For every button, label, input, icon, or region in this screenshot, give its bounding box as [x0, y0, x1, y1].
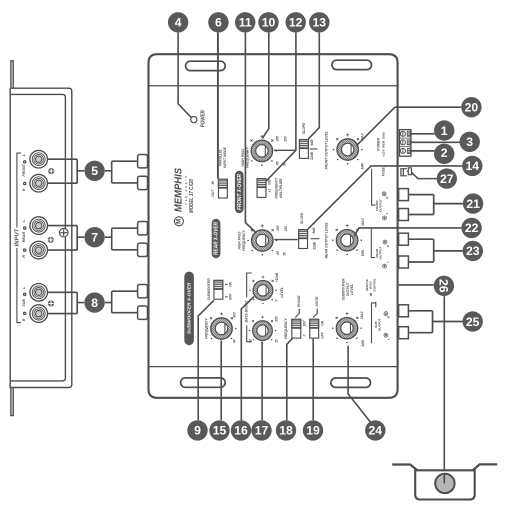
- wire sub L: [48, 291, 78, 293]
- input jack FRONT R: [30, 174, 48, 192]
- switch S4 frequency multiplier: [257, 179, 266, 198]
- svg-text:REAR X-OVER: REAR X-OVER: [214, 222, 220, 255]
- svg-text:FUSE: FUSE: [381, 166, 385, 176]
- svg-text:18: 18: [279, 424, 293, 438]
- top-left mounting slot: [186, 61, 226, 70]
- wire callout8 to plugs: [105, 291, 138, 313]
- K3 pointer line: [274, 239, 297, 241]
- callout 17: [251, 420, 271, 440]
- switch S7 subwoofer on/off: [214, 280, 223, 299]
- svg-text:. C A R . A U D I O .: . C A R . A U D I O .: [185, 172, 188, 207]
- subwoofer speaker box: [415, 470, 475, 499]
- slope divider (rear): [311, 238, 320, 240]
- switch S1 parallel input mode: [218, 179, 227, 198]
- svg-text:REAR: REAR: [22, 232, 26, 243]
- svg-text:13: 13: [313, 16, 327, 30]
- rear output L star: [383, 264, 387, 268]
- led dot sub L: [23, 292, 27, 296]
- svg-text:27: 27: [440, 172, 454, 186]
- mute label leader: [313, 309, 317, 318]
- knob K3 high pass frequency rear: [247, 224, 277, 255]
- svg-text:x50: x50: [268, 179, 272, 186]
- wire rear R: [48, 249, 78, 251]
- K1 pointer line: [274, 149, 296, 151]
- svg-text:24: 24: [369, 424, 383, 438]
- leader callout 18 from S5: [287, 338, 293, 420]
- callout 10: [258, 12, 278, 32]
- svg-text:+12dB: +12dB: [275, 272, 279, 282]
- rear output R star: [383, 240, 387, 244]
- svg-text:12dB: 12dB: [312, 241, 316, 249]
- svg-text:FREQUENCY: FREQUENCY: [242, 229, 246, 250]
- svg-text:12dB: 12dB: [310, 151, 314, 159]
- svg-text:OFF: OFF: [321, 331, 325, 338]
- svg-text:MAX: MAX: [361, 217, 365, 225]
- svg-text:6: 6: [215, 16, 222, 30]
- svg-text:FRONT OUTPUT LEVEL: FRONT OUTPUT LEVEL: [325, 131, 329, 169]
- speaker flange right: [473, 464, 498, 470]
- bottom-left mounting slot: [181, 378, 226, 387]
- wire bracket sub: [77, 292, 84, 313]
- svg-text:REAR OUTPUT LEVEL: REAR OUTPUT LEVEL: [325, 222, 329, 258]
- callout 27: [437, 168, 457, 188]
- leader callout 13 to S2: [308, 33, 319, 140]
- callout 14: [462, 156, 482, 176]
- svg-text:85: 85: [276, 161, 280, 165]
- svg-text:MIN: MIN: [361, 249, 365, 256]
- remote bass port bracket: [372, 302, 377, 343]
- svg-text:20: 20: [465, 101, 479, 115]
- svg-text:6dB: 6dB: [310, 139, 314, 146]
- RCA plug front R: [138, 176, 148, 189]
- svg-text:INPUT: INPUT: [15, 228, 21, 247]
- led dot sub R: [23, 312, 27, 316]
- power LED: [191, 117, 197, 123]
- callout 11: [235, 12, 255, 32]
- knob K6 bass boost level: [249, 276, 277, 305]
- leader callout 19 from S6: [312, 339, 314, 421]
- svg-text:4: 4: [175, 16, 182, 30]
- svg-text:50: 50: [283, 252, 287, 256]
- svg-text:⇄: ⇄: [368, 293, 373, 296]
- svg-text:7: 7: [91, 231, 98, 245]
- svg-text:5: 5: [91, 164, 98, 178]
- terminal clamp +12V: [407, 131, 410, 136]
- callout 9: [187, 420, 207, 440]
- svg-text:SUBWOOFER X-OVER: SUBWOOFER X-OVER: [186, 282, 192, 334]
- svg-text:OUTPUT: OUTPUT: [379, 198, 383, 212]
- svg-text:FREQUENCY: FREQUENCY: [284, 318, 288, 339]
- speaker cone: [435, 474, 454, 493]
- front output jack L: [399, 209, 409, 221]
- callout 25: [463, 311, 483, 331]
- speaker cone wire: [443, 474, 445, 484]
- top-right mounting slot: [332, 60, 372, 69]
- wire callout5 to plugs: [105, 161, 138, 183]
- pill REAR X-OVER: [212, 219, 221, 258]
- input group bracket: [17, 153, 21, 323]
- svg-text:15: 15: [213, 424, 227, 438]
- led dot front R: [23, 182, 27, 186]
- svg-text:REMOTE: REMOTE: [365, 279, 369, 291]
- RCA plug front L: [138, 155, 148, 168]
- bass boost bracket: [247, 273, 252, 342]
- wire rear L: [48, 225, 78, 227]
- callout 20: [461, 97, 481, 117]
- terminal screw +12V: [400, 131, 405, 136]
- svg-text:22: 22: [465, 221, 479, 235]
- slope divider (front): [310, 148, 318, 150]
- switch S6 mute: [310, 319, 319, 338]
- svg-text:MULTIPLIER: MULTIPLIER: [279, 178, 283, 198]
- svg-text:OUT: OUT: [211, 189, 215, 197]
- knob K4 rear output level: [332, 224, 362, 255]
- leader callout 24 from K8: [348, 346, 375, 429]
- leader callout 26 to speaker: [443, 296, 445, 483]
- front output L star: [383, 216, 387, 220]
- svg-text:MEMPHIS: MEMPHIS: [173, 168, 184, 212]
- Memphis logo M symbol: [174, 217, 183, 226]
- svg-text:OUTPUT: OUTPUT: [378, 317, 382, 331]
- svg-text:R: R: [22, 318, 26, 321]
- svg-text:3: 3: [466, 135, 473, 149]
- front output wires to callout 21: [408, 195, 463, 215]
- svg-text:CONTROL: CONTROL: [372, 278, 376, 292]
- panel bottom flange: [11, 388, 13, 415]
- svg-text:L: L: [22, 286, 26, 288]
- terminal clamp GND: [407, 148, 410, 153]
- svg-text:SLOPE: SLOPE: [302, 122, 306, 134]
- knob K5 subwoofer frequency: [207, 312, 237, 343]
- bottom fold line: [149, 366, 398, 368]
- svg-text:2: 2: [441, 146, 448, 160]
- power terminal block: [400, 130, 412, 157]
- svg-text:PHASE: PHASE: [297, 295, 301, 307]
- svg-text:10: 10: [262, 16, 276, 30]
- rear output bracket: [371, 229, 375, 258]
- input jack SUB L: [30, 284, 48, 302]
- sub output R star: [384, 312, 388, 316]
- wire front R: [48, 182, 78, 184]
- terminal clamp REM: [407, 140, 410, 145]
- phase label leader: [295, 309, 299, 318]
- switch S5 phase: [292, 319, 301, 338]
- callout 19: [303, 420, 323, 440]
- sub output wires to callout 25: [408, 311, 462, 333]
- svg-text:8: 8: [91, 296, 98, 310]
- svg-text:BASS: BASS: [369, 281, 373, 289]
- led dot rear R: [23, 248, 27, 252]
- svg-text:17: 17: [255, 424, 269, 438]
- svg-text:FREQUENCY: FREQUENCY: [275, 177, 279, 198]
- svg-text:14: 14: [466, 159, 480, 173]
- callout 22: [461, 218, 481, 238]
- label ON (sub switch): [225, 281, 232, 287]
- wire bracket rear: [77, 226, 84, 251]
- callout 6: [208, 12, 228, 32]
- panel mount screw: [59, 228, 68, 237]
- leader callout 4 to power LED: [178, 33, 191, 118]
- terminal screw GND: [400, 148, 405, 153]
- svg-text:85: 85: [276, 251, 280, 255]
- knob K2 front output level: [333, 133, 363, 164]
- svg-text:40: 40: [232, 339, 236, 344]
- callout 23: [463, 241, 483, 261]
- led dot rear L: [23, 226, 27, 230]
- bottom-right mounting slot: [331, 378, 371, 387]
- callout 21: [463, 193, 483, 213]
- svg-text:M: M: [175, 219, 182, 224]
- svg-text:50: 50: [249, 339, 253, 343]
- RCA plug sub L: [138, 285, 148, 298]
- svg-text:9: 9: [194, 424, 201, 438]
- sub output L star: [384, 333, 388, 337]
- callout 4: [168, 12, 188, 32]
- knob K7 bass boost frequency: [249, 316, 277, 345]
- leader callout 15 from K5: [220, 341, 222, 421]
- svg-text:SLOPE: SLOPE: [300, 212, 304, 224]
- svg-text:0: 0: [274, 299, 278, 301]
- leader callout 17 from K7: [261, 342, 263, 421]
- wire +12V to callout 1: [411, 133, 434, 135]
- label OFF (sub switch): [225, 293, 232, 301]
- screw between rear jacks: [48, 237, 54, 243]
- leader callout 6 to S1: [217, 33, 219, 179]
- leader callout 12 to S4: [266, 33, 296, 182]
- input jack REAR L: [30, 217, 48, 235]
- knob K8 subwoofer output level: [332, 312, 362, 343]
- leader callout 10 to K1: [262, 33, 269, 139]
- callout 1: [434, 120, 454, 140]
- callout 12: [286, 12, 306, 32]
- callout 16: [231, 420, 251, 440]
- svg-text:19: 19: [306, 424, 320, 438]
- svg-text:MIN: MIN: [361, 162, 365, 169]
- sub output jack R: [399, 305, 409, 317]
- svg-text:16: 16: [234, 424, 248, 438]
- screw between front jacks: [48, 168, 54, 174]
- front output jack R: [399, 189, 409, 201]
- svg-text:OFF: OFF: [228, 293, 232, 301]
- wire sub R: [48, 313, 78, 315]
- svg-text:L: L: [22, 220, 26, 222]
- wire bracket front: [77, 159, 84, 183]
- svg-text:26: 26: [437, 279, 451, 293]
- callout 3: [460, 132, 480, 152]
- pill FRONT X-OVER: [235, 171, 244, 213]
- pill SUBWOOFER X-OVER: [184, 272, 194, 346]
- svg-text:180°: 180°: [303, 319, 307, 326]
- svg-text:FRONT: FRONT: [22, 163, 26, 176]
- svg-text:21: 21: [466, 197, 480, 211]
- svg-text:150: 150: [284, 136, 288, 142]
- input jack FRONT L: [30, 150, 48, 168]
- svg-text:POWER: POWER: [376, 138, 380, 151]
- panel inner face line: [11, 94, 66, 381]
- svg-text:400: 400: [232, 312, 236, 319]
- callout 13: [309, 12, 329, 32]
- svg-text:FRONT X-OVER: FRONT X-OVER: [237, 174, 243, 210]
- svg-text:25: 25: [275, 339, 279, 344]
- callout 26: [434, 276, 454, 296]
- leader callout 9 from S7: [198, 300, 214, 420]
- callout 15: [209, 420, 229, 440]
- fuse holder: [401, 168, 412, 176]
- sub output jack L: [399, 327, 409, 339]
- wire GND to callout 2: [411, 150, 434, 152]
- svg-text:R: R: [22, 188, 26, 191]
- svg-text:LEVEL: LEVEL: [350, 284, 354, 295]
- callout 5: [84, 161, 104, 181]
- svg-text:INPUT MODE: INPUT MODE: [223, 146, 227, 167]
- callout 24: [365, 420, 385, 440]
- panel top flange: [11, 61, 13, 88]
- callout 2: [434, 144, 454, 164]
- svg-text:OUTPUT: OUTPUT: [379, 246, 383, 260]
- panel outer outline: [10, 88, 72, 387]
- svg-text:25: 25: [466, 315, 480, 329]
- input jack SUB R: [30, 305, 48, 323]
- leader callout 11 to K3: [245, 33, 256, 233]
- svg-text:0: 0: [303, 334, 307, 336]
- rear output wires to callout 23: [408, 239, 463, 262]
- callout 7: [84, 227, 104, 247]
- svg-text:12: 12: [289, 16, 303, 30]
- leader callout 14 to S3: [308, 166, 462, 229]
- svg-text:MODEL 17 CX20: MODEL 17 CX20: [189, 179, 195, 213]
- svg-text:LEVEL: LEVEL: [280, 287, 284, 298]
- input jack REAR R: [30, 241, 48, 259]
- leader callout 22 to K4: [354, 228, 461, 236]
- terminal screw REM: [400, 140, 405, 145]
- svg-text:MAX: MAX: [360, 311, 364, 319]
- switch S3 slope rear: [299, 230, 308, 249]
- front output bracket: [372, 169, 376, 205]
- leader callout 26 horizontal: [399, 284, 434, 286]
- leader callout 20 to K2: [356, 107, 461, 146]
- front output R star: [382, 192, 386, 196]
- svg-text:MUTE: MUTE: [315, 296, 319, 306]
- top fold line: [149, 85, 398, 87]
- knob K1 high pass frequency front: [247, 135, 277, 166]
- wire front L: [48, 158, 78, 160]
- svg-text:POWER: POWER: [200, 110, 206, 127]
- svg-text:L: L: [385, 212, 389, 214]
- switch S2 slope front: [299, 140, 308, 159]
- wire REM to callout 3: [411, 141, 460, 143]
- svg-text:+12V REM GND: +12V REM GND: [382, 131, 386, 156]
- speaker flange left: [392, 465, 417, 471]
- svg-text:SUBWOOFER: SUBWOOFER: [207, 278, 211, 300]
- svg-text:R: R: [22, 255, 26, 258]
- rear output jack R: [399, 233, 409, 245]
- wire callout7 to plugs: [105, 228, 138, 250]
- svg-text:6dB: 6dB: [312, 227, 316, 234]
- screw between sub jacks: [48, 300, 54, 306]
- main unit body outline: [149, 54, 398, 398]
- svg-text:150: 150: [284, 226, 288, 232]
- svg-text:L: L: [386, 338, 390, 340]
- led dot front L: [23, 160, 27, 164]
- svg-text:L: L: [22, 154, 26, 156]
- rear output jack L: [399, 256, 409, 268]
- callout 8: [84, 292, 104, 312]
- RCA plug sub R: [138, 306, 148, 319]
- svg-text:L: L: [386, 261, 390, 263]
- fuse leader to callout 27: [412, 172, 437, 178]
- svg-text:250: 250: [276, 136, 280, 143]
- svg-text:SUB: SUB: [22, 299, 26, 307]
- leader callout 16 from K6: [241, 297, 254, 421]
- svg-text:x1: x1: [268, 189, 272, 194]
- svg-text:11: 11: [239, 16, 252, 30]
- RCA plug rear R: [138, 243, 148, 256]
- svg-text:ON: ON: [228, 281, 232, 287]
- svg-text:ON: ON: [321, 320, 325, 325]
- svg-text:1: 1: [441, 124, 448, 138]
- svg-text:250: 250: [276, 225, 280, 232]
- svg-text:250: 250: [275, 316, 279, 323]
- svg-text:23: 23: [466, 244, 480, 258]
- callout 18: [276, 420, 296, 440]
- left side panel (input end view): [10, 61, 72, 416]
- RCA plug rear L: [138, 222, 148, 235]
- svg-text:MIN: MIN: [361, 340, 365, 347]
